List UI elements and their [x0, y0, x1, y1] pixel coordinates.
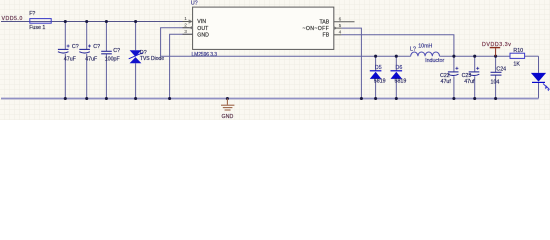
svg-text:104: 104	[491, 80, 500, 86]
svg-text:FB: FB	[323, 33, 330, 39]
svg-text:47uF: 47uF	[85, 56, 98, 62]
svg-text:VIN: VIN	[197, 19, 206, 25]
svg-text:1: 1	[184, 16, 187, 22]
svg-text:D6: D6	[396, 65, 403, 71]
svg-text:3: 3	[184, 29, 187, 35]
svg-text:D5: D5	[375, 65, 382, 71]
svg-text:GND: GND	[197, 33, 209, 39]
svg-text:4: 4	[339, 30, 342, 36]
svg-text:100pF: 100pF	[105, 57, 121, 63]
svg-text:C?: C?	[93, 44, 100, 50]
svg-text:R10: R10	[513, 48, 523, 54]
svg-text:1K: 1K	[513, 61, 520, 67]
svg-text:6: 6	[339, 17, 342, 23]
svg-text:C22: C22	[440, 73, 450, 79]
svg-text:~ON~OFF: ~ON~OFF	[303, 26, 330, 32]
svg-text:47uF: 47uF	[64, 56, 77, 62]
svg-text:2: 2	[184, 22, 187, 28]
svg-text:10mH: 10mH	[418, 44, 432, 50]
svg-text:L?: L?	[410, 47, 416, 53]
svg-text:DVDD3.3v: DVDD3.3v	[482, 42, 511, 48]
svg-text:Fuse 1: Fuse 1	[29, 25, 45, 31]
svg-text:5819: 5819	[374, 78, 386, 84]
svg-text:C23: C23	[462, 73, 472, 79]
svg-text:47uf: 47uf	[441, 79, 452, 85]
svg-text:LM2596 3.3: LM2596 3.3	[192, 52, 218, 58]
svg-text:F?: F?	[29, 11, 35, 17]
svg-text:TVS Diode: TVS Diode	[140, 56, 164, 62]
svg-text:C?: C?	[72, 44, 79, 50]
svg-text:TAB: TAB	[319, 19, 329, 25]
svg-text:5: 5	[339, 23, 342, 29]
svg-text:Inductor: Inductor	[425, 58, 444, 64]
svg-text:C24: C24	[496, 66, 506, 72]
svg-text:VDD5.0: VDD5.0	[2, 16, 23, 22]
svg-text:C?: C?	[113, 48, 120, 54]
svg-text:47uf: 47uf	[464, 79, 475, 85]
svg-text:GND: GND	[222, 114, 234, 120]
svg-text:OUT: OUT	[197, 26, 209, 32]
svg-text:5819: 5819	[395, 78, 407, 84]
svg-text:U?: U?	[191, 1, 198, 7]
